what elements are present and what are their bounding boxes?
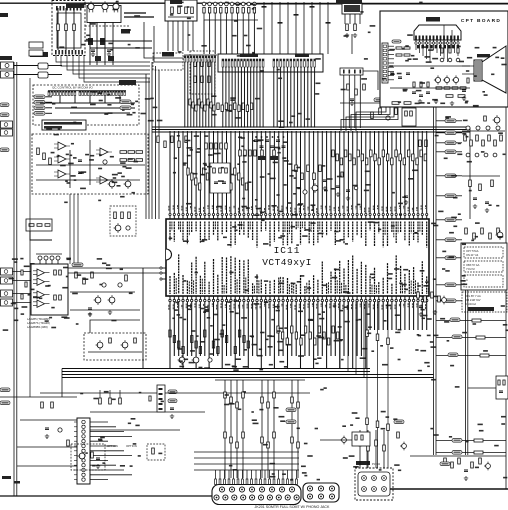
wire bpin drop 56 xyxy=(413,302,415,331)
node value label 125 xyxy=(235,313,239,315)
node IC11 top pin 53 label xyxy=(395,222,397,244)
wire top-right border xyxy=(230,3,508,5)
capacitor C8 xyxy=(222,182,226,184)
node value label 338 xyxy=(22,306,28,308)
resistor R224 xyxy=(201,102,203,108)
node IC11 top pin 19 xyxy=(247,214,249,220)
node value label 190 xyxy=(422,318,425,320)
node IC11 bottom pin 57 label2 xyxy=(415,280,417,294)
resistor R160 xyxy=(114,212,117,219)
node value label 337 xyxy=(64,317,70,319)
wire bpin drop 44 xyxy=(360,302,362,357)
node IC11 bottom pin 21 label2 xyxy=(258,280,260,294)
node left label box 1 xyxy=(29,42,43,48)
node value label 39 xyxy=(258,139,264,141)
node value label 40 xyxy=(271,205,276,207)
node IC11 bottom pin 6 xyxy=(191,296,193,302)
node value label 318 xyxy=(444,158,448,160)
node value label 137 xyxy=(207,317,211,319)
node value label 110 xyxy=(298,355,304,357)
capacitor C181 xyxy=(476,126,480,130)
wire bpin drop 8 xyxy=(204,302,206,357)
node value label 261 xyxy=(251,411,254,413)
node hdrG pin 5 xyxy=(196,56,198,62)
resistor R290 xyxy=(295,165,298,172)
resistor R273 xyxy=(254,150,257,156)
node hdrB2 pin 12 xyxy=(110,91,112,96)
node value label 224 xyxy=(108,112,113,114)
node IC11 top pin 10 xyxy=(208,214,210,220)
wire netr6 xyxy=(436,195,445,197)
node IC11 top pin 28 xyxy=(287,214,289,220)
transistor Q51 xyxy=(122,342,128,348)
node value label 396 xyxy=(181,2,184,4)
node IC11 bottom pin 16 xyxy=(234,296,236,302)
wire bpin drop 57 xyxy=(417,302,419,331)
ground GND6 xyxy=(323,186,327,191)
node value label 348 xyxy=(72,293,78,295)
node IC11 bottom pin 28 label2 xyxy=(288,284,290,294)
wire bl rail 466 xyxy=(17,465,77,467)
wire N rail xyxy=(462,130,505,132)
node value label 113 xyxy=(225,364,230,366)
node value label 243 xyxy=(402,48,405,50)
resistor R215 xyxy=(419,140,422,147)
node value label 27 xyxy=(173,172,176,174)
node hdrG pin 4 xyxy=(193,56,195,62)
node value label 316 xyxy=(442,268,445,270)
node hdrK pin 1 xyxy=(343,70,345,74)
resistor R425 xyxy=(300,338,302,345)
node IC11 bottom pin 46 label xyxy=(365,265,367,294)
wire bpin drop 51 xyxy=(391,302,393,331)
wire tuner out 5 xyxy=(79,55,150,78)
node IC11 bottom pin 25 label xyxy=(273,280,275,294)
node value label 254 xyxy=(495,57,499,59)
node IC11 top pin 5 label xyxy=(186,222,188,245)
node IC11 bottom pin 26 xyxy=(278,296,280,302)
node IC11 top pin 43 xyxy=(352,214,354,220)
resistor R250 xyxy=(213,168,216,173)
resistor R3017 xyxy=(403,158,406,165)
resistor R2411 xyxy=(230,183,232,190)
wire horizontal bus lower 1 xyxy=(62,368,370,370)
node hdrB2 pin 16 xyxy=(121,91,123,96)
wire K drop 0 xyxy=(343,75,345,128)
wire netl4 xyxy=(46,112,53,114)
node IC11 top pin 29 xyxy=(291,214,293,220)
capacitor C105 xyxy=(282,146,286,148)
wire E2 drop 11 xyxy=(310,67,312,128)
wire b inner 1 xyxy=(40,102,135,104)
wire bpin drop 29 xyxy=(295,302,297,357)
node IC11 top pin 8 xyxy=(199,214,201,220)
node value label 269 xyxy=(252,419,257,421)
wire drop E 4 xyxy=(295,2,297,54)
node connector T body xyxy=(157,385,165,412)
node hdrE2 pin 2 xyxy=(276,59,278,67)
resistor R372 xyxy=(119,398,122,404)
wire fe down 0 xyxy=(89,22,91,65)
node IC11 bottom pin 17 xyxy=(239,296,241,302)
resistor R291 xyxy=(301,173,304,180)
node CRT socket body xyxy=(414,25,461,40)
wire bpin drop 33 xyxy=(313,302,315,369)
node IC11 top pin 5 number xyxy=(185,207,187,211)
node value label 402 xyxy=(187,6,190,8)
wire bl rail 420 xyxy=(20,419,77,421)
node IC11 top pin 39 xyxy=(334,214,336,220)
node value label 61 xyxy=(174,157,177,159)
wire v1 feed 5 xyxy=(237,470,239,479)
node JK201 top pin 8 xyxy=(289,487,294,492)
node value label 303 xyxy=(457,154,462,156)
wire mid drop 6 xyxy=(273,380,275,478)
wire tuner lead 0a xyxy=(57,8,59,24)
capacitor C12 xyxy=(404,196,408,198)
node value label 174 xyxy=(360,357,366,359)
node value label 240 xyxy=(408,58,412,60)
node value label 228 xyxy=(440,103,445,105)
node value label 346 xyxy=(102,263,106,265)
capacitor C76 xyxy=(236,2,240,6)
node CRT below band 2 xyxy=(421,45,424,48)
resistor R307 xyxy=(361,154,364,161)
node IC11 bottom pin 2 xyxy=(173,296,175,302)
wire spk feed 2 xyxy=(462,73,474,75)
resistor R602 xyxy=(458,458,461,464)
node IC11 bottom pin 52 xyxy=(391,296,393,302)
node IC11 top pin 21 number xyxy=(255,205,257,208)
wire b drop 60 xyxy=(59,96,61,104)
wire G drop 8 xyxy=(208,62,210,128)
resistor R303 xyxy=(344,150,347,157)
resistor R210 xyxy=(371,112,374,119)
resistor R560 xyxy=(465,228,468,234)
node P801 pin 5 xyxy=(82,440,85,443)
wire NO rail xyxy=(462,175,500,177)
node IC11 top pin 58 label xyxy=(417,222,419,243)
node hdrG pin 10 xyxy=(211,56,213,62)
node IC11 top pin 18 number xyxy=(242,206,244,212)
node IC11 bottom pin 40 label xyxy=(339,261,341,294)
op-amp U23 xyxy=(100,148,108,156)
node value label 44 xyxy=(177,135,180,137)
node value label 212 xyxy=(107,104,111,106)
op-amp audio IC box xyxy=(31,264,68,315)
resistor R418 xyxy=(204,330,206,337)
wire S up xyxy=(90,320,140,333)
node value label 127 xyxy=(265,339,268,341)
node IC11 top pin 55 number xyxy=(403,206,405,209)
resistor R2414 xyxy=(241,178,243,185)
node IC11 bottom pin 57 xyxy=(413,296,415,302)
node CRT socket pin 5 xyxy=(429,40,431,44)
resistor R242 xyxy=(195,178,197,185)
wire bpin drop 1 xyxy=(173,302,175,357)
wire bpin drop 5 xyxy=(191,302,193,357)
node IC11 top pin 34 xyxy=(313,214,315,220)
wire pin drop 21 xyxy=(260,131,262,214)
wire crt drop 9 xyxy=(447,44,449,62)
node IC11 top pin 40 xyxy=(339,214,341,220)
node IC11 bottom pin 51 xyxy=(387,296,389,302)
resistor R248 xyxy=(218,168,220,175)
node value label 262 xyxy=(302,472,307,474)
node value label 324 xyxy=(453,197,458,199)
resistor R460 xyxy=(224,432,227,438)
node IC11 bottom pin 2 label xyxy=(173,273,175,294)
wire pin drop 2 xyxy=(178,131,180,214)
ground GND9 xyxy=(404,200,408,205)
node IC11 top pin 52 number xyxy=(390,207,392,212)
node value label 8 xyxy=(64,202,68,204)
node IC11 bottom pin 47 label xyxy=(369,276,371,294)
node spk jack 1 xyxy=(1,268,13,275)
node value label 83 xyxy=(246,207,250,209)
node value label 272 xyxy=(279,416,285,418)
node tuner top pin 4 xyxy=(66,6,68,11)
resistor R420 xyxy=(277,326,279,333)
svg-text:A: A xyxy=(466,278,468,282)
node value label 229 xyxy=(491,74,494,76)
resistor R512 xyxy=(452,87,458,89)
node value label 204 xyxy=(318,314,321,316)
capacitor C20 xyxy=(390,73,394,75)
node value label 161 xyxy=(386,305,391,307)
node value label 32 xyxy=(282,157,286,159)
node IC11 top pin 17 xyxy=(239,214,241,220)
node value label 70 xyxy=(273,162,278,164)
node value label 257 xyxy=(389,49,395,51)
op-amp IC11 VCT49xyI main body xyxy=(166,219,429,296)
node IC11 bottom pin 17 number xyxy=(237,305,239,309)
resistor R410 xyxy=(169,330,171,337)
node IC11 bottom pin 23 xyxy=(265,296,267,302)
capacitor C183 xyxy=(496,126,500,130)
node IC11 top pin 9 number xyxy=(203,207,205,213)
node IC11 bottom pin 30 number xyxy=(294,305,296,310)
node value label 315 xyxy=(498,236,503,238)
node JK202 bot pin 3 xyxy=(329,494,334,499)
node PJ304 inner xyxy=(358,472,390,496)
node hdrB2 pin 9 xyxy=(101,91,103,96)
node value label 75 xyxy=(297,188,301,190)
wire pair 6 xyxy=(237,13,239,20)
node IC11 top pin 47 number xyxy=(368,208,370,214)
node CRT below band 10 xyxy=(457,45,460,48)
wire audio-bus link xyxy=(142,268,144,369)
wire br bend 3 xyxy=(363,302,365,378)
node dashed F label xyxy=(162,52,174,57)
capacitor C101 xyxy=(260,146,264,148)
wire crt drop 2 xyxy=(422,44,424,56)
capacitor C150 xyxy=(208,358,212,362)
node IC11 bottom pin 36 xyxy=(321,296,323,302)
node hdrG pin 1 xyxy=(184,56,186,62)
node IC11 bottom pin 40 xyxy=(339,296,341,302)
node IC11 bottom pin 43 label xyxy=(352,256,354,295)
node value label 179 xyxy=(415,349,418,351)
wire pin drop 22 xyxy=(265,131,267,214)
resistor R432 xyxy=(387,338,390,345)
node IC11 top pin 8 label xyxy=(199,222,201,243)
capacitor C77 xyxy=(241,2,245,6)
node IC11 top pin 35 number xyxy=(316,208,318,213)
wire jk mesh h3 xyxy=(194,469,299,471)
node CRT socket pin label 10 xyxy=(447,36,449,40)
wire boxH drop 5 xyxy=(192,21,194,51)
node T pin 5 xyxy=(159,408,163,410)
node IC11 top pin 54 number xyxy=(398,205,400,209)
wire bpin drop 25 xyxy=(278,302,280,357)
wire pair 4 xyxy=(225,13,227,20)
resistor R232 xyxy=(225,103,227,110)
wire E1 drop 2 xyxy=(228,67,230,128)
node IC11 top pin 40 number xyxy=(338,207,340,211)
node hdrE2 pin 12 xyxy=(310,59,312,67)
node value label 14 xyxy=(113,177,117,179)
node IC11 bottom pin 59 xyxy=(421,296,423,302)
node CPT strip pin 2 xyxy=(383,49,386,51)
node NETB1 xyxy=(120,100,131,104)
node IC11 top pin 3 xyxy=(178,214,180,220)
wire E2 drop 6 xyxy=(293,67,295,128)
wire v1 feed 4 xyxy=(233,470,235,479)
node IC11 bottom pin 9 number xyxy=(203,304,205,307)
resistor R421 xyxy=(281,332,283,339)
svg-text:B 1/2Und: B 1/2Und xyxy=(465,302,476,306)
node connector JK201 body xyxy=(212,485,301,505)
node connector P801 body xyxy=(77,418,90,484)
resistor R550 xyxy=(484,116,487,121)
node IC11 top pin 2 xyxy=(173,214,175,220)
wire pin drop 13 xyxy=(226,131,228,214)
node value label 382 xyxy=(364,58,368,60)
node NETR11 xyxy=(445,299,456,303)
resistor R3011 xyxy=(378,158,381,165)
node JK201 pin header 7 xyxy=(242,479,244,485)
capacitor C17 xyxy=(412,92,416,94)
node value label 21 xyxy=(284,160,289,162)
node value label 94 xyxy=(260,332,264,334)
resistor R580 xyxy=(472,319,481,322)
node value label 235 xyxy=(467,57,472,59)
capacitor C24 xyxy=(473,198,477,200)
node IC11 top pin 39 label xyxy=(334,222,336,246)
wire pin drop 26 xyxy=(282,131,284,214)
capacitor C160 xyxy=(440,58,444,62)
resistor R3020 xyxy=(416,158,419,165)
diagram dashed box F xyxy=(190,51,215,94)
node IC11 bottom pin 12 number xyxy=(216,305,218,311)
node CPT strip pin 8 xyxy=(383,74,386,76)
wire d out xyxy=(30,231,52,240)
node value label 215 xyxy=(153,107,158,109)
resistor R430 xyxy=(366,330,369,337)
node hdrE1 pin 1 xyxy=(222,59,224,67)
wire pin drop 53 xyxy=(400,131,402,214)
node value label 406 xyxy=(187,18,191,20)
node hdrE1 pin 5 xyxy=(234,59,236,67)
op-amp U31 xyxy=(37,278,45,285)
resistor R246 xyxy=(210,178,212,185)
node mark m6 xyxy=(310,6,315,8)
ground GND14 xyxy=(170,414,174,419)
node value label 356 xyxy=(80,393,83,395)
node value label 395 xyxy=(178,51,182,53)
node value label 405 xyxy=(177,5,182,7)
node value label 43 xyxy=(197,148,201,150)
node IC11 bottom pin 1 xyxy=(169,296,171,302)
node value label 265 xyxy=(259,409,263,411)
wire tuner out 3 xyxy=(67,55,150,70)
node IC11 bottom pin 43 xyxy=(352,296,354,302)
resistor R234 xyxy=(234,103,236,110)
node CRT below band 5 xyxy=(435,45,438,48)
resistor R3016 xyxy=(399,154,402,161)
wire mid drop 0 xyxy=(224,380,226,478)
node tuner pin 1 xyxy=(55,50,57,55)
node IC11 bottom pin 28 xyxy=(287,296,289,302)
wire horizontal bus lower 2 xyxy=(62,371,370,373)
node value label 364 xyxy=(93,398,98,400)
node value label 222 xyxy=(145,98,151,100)
node value label 260 xyxy=(459,61,464,63)
node value label 105 xyxy=(191,330,195,332)
wire cap120 xyxy=(39,260,41,264)
resistor R545 xyxy=(494,140,497,146)
node hdrB2 pin 7 xyxy=(96,91,98,96)
node IC11 top pin 20 xyxy=(252,214,254,220)
node hdrB2 pin 11 xyxy=(107,91,109,96)
wire bpin drop 41 xyxy=(347,302,349,357)
wire pin drop 50 xyxy=(387,131,389,214)
node value label 336 xyxy=(106,268,112,270)
capacitor C60 xyxy=(126,226,130,230)
wire mid drop 7 xyxy=(291,380,293,478)
node IC11 bottom pin 47 label2 xyxy=(371,285,373,294)
wire crt drop 12 xyxy=(457,44,459,56)
node IC11 bottom pin 18 number xyxy=(242,305,244,309)
node label box D2 xyxy=(26,219,52,231)
node IC11 bottom pin 27 label xyxy=(282,277,284,294)
wire pin drop 46 xyxy=(369,131,371,214)
resistor R302 xyxy=(340,158,343,165)
capacitor C21 xyxy=(398,77,402,79)
node value label 370 xyxy=(128,423,131,425)
wire rlow2 1 xyxy=(436,452,506,454)
node IC11 bottom pin 46 number xyxy=(364,304,366,309)
node value label 78 xyxy=(291,170,297,172)
node CRT socket pin 8 xyxy=(440,40,442,44)
node bl corner mark 1 xyxy=(2,476,11,479)
node IC11 top pin 54 xyxy=(400,214,402,220)
node value label 124 xyxy=(210,353,214,355)
node IC11 bottom pin 11 number xyxy=(211,303,213,306)
node JK201 bottom pin 1 xyxy=(214,495,219,500)
wire cpt strip out 8 xyxy=(388,79,394,81)
node IC11 top pin 13 number xyxy=(220,207,222,212)
resistor R163 xyxy=(29,224,34,227)
node aux jack 1 xyxy=(1,121,13,128)
wire cpt strip out 1 xyxy=(388,49,394,51)
resistor R522 xyxy=(457,48,459,53)
node IC11 top pin 49 number xyxy=(377,205,379,209)
node IC11 bottom pin 55 number xyxy=(403,304,405,308)
node CRT socket pin 11 xyxy=(450,40,452,44)
wire E1 drop 9 xyxy=(250,67,252,128)
